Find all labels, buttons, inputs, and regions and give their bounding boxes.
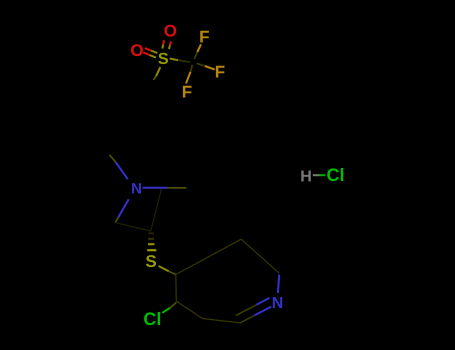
svg-text:F: F [215,63,225,82]
svg-text:N: N [131,181,142,198]
svg-text:O: O [130,41,143,60]
svg-text:F: F [182,83,192,102]
svg-text:S: S [145,252,156,271]
svg-text:Cl: Cl [327,165,345,185]
svg-text:H: H [300,168,312,185]
svg-text:S: S [158,50,169,68]
svg-text:O: O [164,21,177,40]
svg-text:F: F [199,27,209,46]
svg-text:N: N [272,295,284,312]
svg-text:Cl: Cl [143,309,161,329]
